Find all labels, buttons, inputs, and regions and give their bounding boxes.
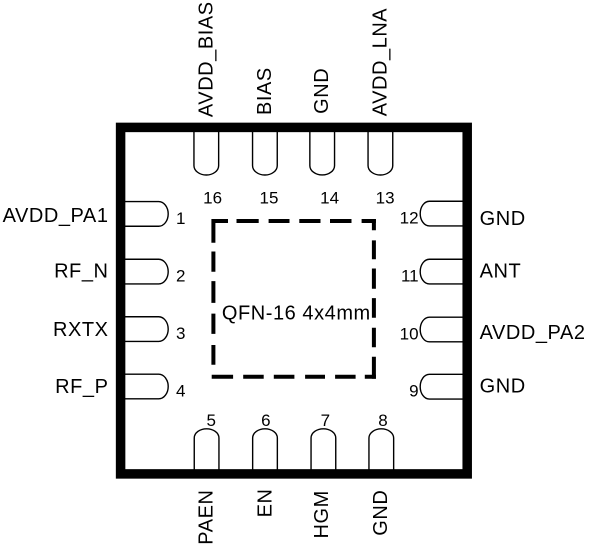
svg-text:PAEN: PAEN — [196, 490, 218, 545]
svg-text:10: 10 — [400, 325, 419, 344]
svg-text:AVDD_PA1: AVDD_PA1 — [3, 205, 109, 227]
svg-text:9: 9 — [409, 382, 418, 401]
svg-text:GND: GND — [370, 490, 392, 536]
pin 12 (GND), right side — [420, 201, 471, 226]
svg-text:GND: GND — [480, 208, 526, 230]
svg-text:15: 15 — [260, 188, 279, 207]
svg-text:EN: EN — [255, 489, 277, 518]
pin 14 (GND), top side — [310, 124, 335, 175]
pin 8 (GND), bottom side — [369, 429, 394, 478]
pin 9 (GND), right side — [420, 374, 471, 399]
pin 3 (RXTX), left side — [117, 317, 168, 342]
pin 2 (RF_N), left side — [117, 259, 168, 284]
svg-text:1: 1 — [176, 209, 185, 228]
svg-text:QFN-16 4x4mm: QFN-16 4x4mm — [222, 302, 371, 324]
svg-text:GND: GND — [480, 376, 526, 398]
svg-text:GND: GND — [311, 68, 333, 114]
pin 5 (PAEN), bottom side — [194, 429, 219, 478]
svg-text:6: 6 — [261, 411, 270, 430]
svg-text:14: 14 — [320, 188, 339, 207]
pin 10 (AVDD_PA2), right side — [420, 317, 471, 342]
pin 16 (AVDD_BIAS), top side — [194, 124, 219, 175]
svg-text:AVDD_LNA: AVDD_LNA — [369, 8, 391, 117]
exposed pad dashed square, left edge — [211, 219, 215, 377]
svg-text:RF_P: RF_P — [55, 376, 108, 398]
svg-text:4: 4 — [176, 382, 185, 401]
QFN-16 package body outline — [121, 127, 468, 474]
pin 15 (BIAS), top side — [253, 124, 278, 175]
svg-text:2: 2 — [176, 267, 185, 286]
pin 1 (AVDD_PA1), left side — [117, 202, 168, 227]
svg-text:HGM: HGM — [311, 490, 333, 538]
svg-text:5: 5 — [206, 411, 215, 430]
exposed pad dashed square, right edge — [372, 219, 376, 379]
svg-text:8: 8 — [378, 411, 387, 430]
svg-text:12: 12 — [400, 209, 419, 228]
exposed pad dashed square, bottom edge — [212, 375, 376, 379]
svg-text:BIAS: BIAS — [254, 67, 276, 115]
pin 11 (ANT), right side — [420, 259, 471, 284]
svg-text:RF_N: RF_N — [54, 260, 108, 282]
pin 7 (HGM), bottom side — [311, 429, 336, 478]
svg-text:ANT: ANT — [480, 261, 522, 283]
svg-text:13: 13 — [376, 188, 395, 207]
svg-text:16: 16 — [203, 188, 222, 207]
svg-text:AVDD_PA2: AVDD_PA2 — [480, 322, 586, 344]
svg-text:11: 11 — [401, 267, 419, 286]
svg-text:RXTX: RXTX — [53, 319, 109, 341]
exposed pad / package outline (dashed square), top edge — [212, 219, 376, 223]
pin 13 (AVDD_LNA), top side — [368, 124, 393, 175]
pin 4 (RF_P), left side — [117, 374, 168, 399]
svg-text:3: 3 — [176, 324, 185, 343]
pin 6 (EN), bottom side — [253, 429, 278, 478]
svg-text:AVDD_BIAS: AVDD_BIAS — [195, 1, 217, 117]
svg-text:7: 7 — [321, 411, 330, 430]
